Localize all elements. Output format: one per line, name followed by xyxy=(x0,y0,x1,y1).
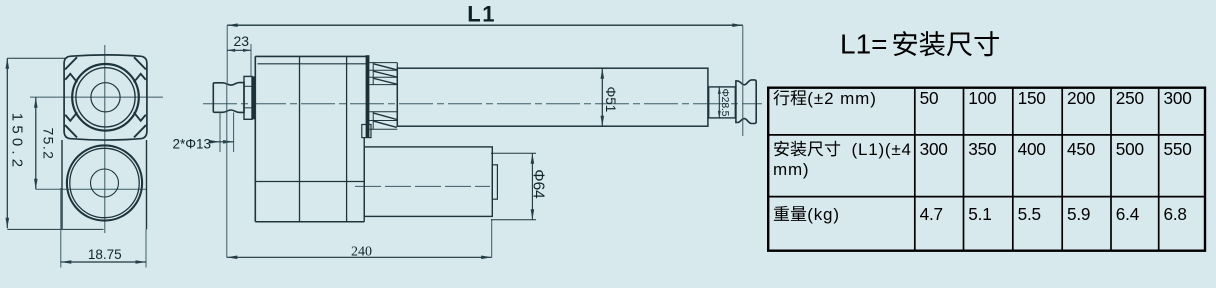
svg-text:300: 300 xyxy=(1164,88,1192,108)
svg-text:(L1)(±4: (L1)(±4 xyxy=(852,140,912,159)
svg-text:350: 350 xyxy=(968,139,996,159)
svg-text:6.8: 6.8 xyxy=(1164,204,1187,224)
svg-text:(±2 mm): (±2 mm) xyxy=(807,89,876,108)
svg-text:5.9: 5.9 xyxy=(1067,204,1090,224)
svg-text:18.75: 18.75 xyxy=(88,247,122,262)
svg-text:2*Φ13: 2*Φ13 xyxy=(173,137,212,152)
svg-text:240: 240 xyxy=(351,244,372,259)
svg-text:250: 250 xyxy=(1116,88,1144,108)
svg-text:Φ64: Φ64 xyxy=(530,169,547,199)
svg-text:Φ51: Φ51 xyxy=(603,87,618,113)
svg-text:150.2: 150.2 xyxy=(9,113,26,172)
svg-text:300: 300 xyxy=(920,139,948,159)
svg-text:150: 150 xyxy=(1018,88,1046,108)
svg-text:200: 200 xyxy=(1067,88,1095,108)
svg-text:75.2: 75.2 xyxy=(41,128,57,161)
svg-text:L1: L1 xyxy=(467,1,496,26)
svg-text:500: 500 xyxy=(1116,139,1144,159)
svg-text:5.5: 5.5 xyxy=(1018,204,1041,224)
svg-text:450: 450 xyxy=(1067,139,1095,159)
svg-text:6.4: 6.4 xyxy=(1116,204,1140,224)
svg-text:400: 400 xyxy=(1018,139,1046,159)
svg-text:5.1: 5.1 xyxy=(968,204,991,224)
svg-text:L1=: L1= xyxy=(840,29,888,60)
svg-text:23: 23 xyxy=(234,33,250,49)
svg-text:550: 550 xyxy=(1164,139,1192,159)
svg-text:50: 50 xyxy=(920,88,939,108)
svg-text:(kg): (kg) xyxy=(807,205,839,224)
svg-text:Φ28.5: Φ28.5 xyxy=(719,89,731,117)
svg-text:4.7: 4.7 xyxy=(920,204,943,224)
svg-text:mm): mm) xyxy=(773,160,809,179)
svg-text:100: 100 xyxy=(968,88,996,108)
